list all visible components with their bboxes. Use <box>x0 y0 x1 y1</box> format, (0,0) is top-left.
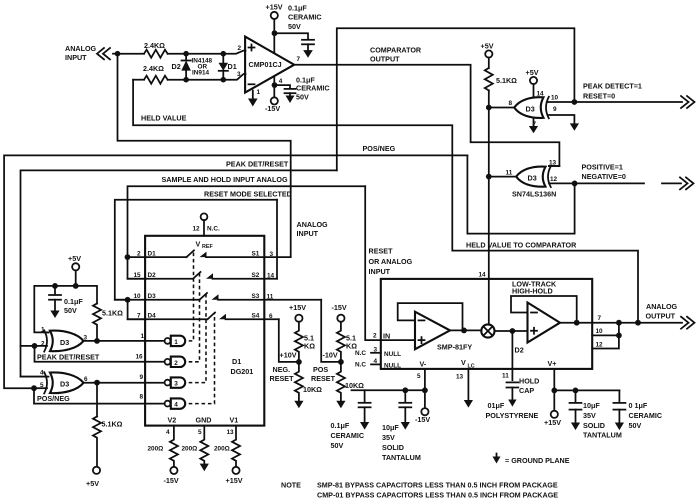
wire peak-det/reset command top route (line B up and over to gate input 10) <box>337 28 575 170</box>
svg-text:PEAK DET/RESET: PEAK DET/RESET <box>37 353 100 362</box>
svg-text:S4: S4 <box>252 313 260 320</box>
node ANALOG INPUT (label and off-page arrow) <box>65 44 118 62</box>
svg-text:+5V: +5V <box>481 42 494 51</box>
label PEAK DETECT=1 RESET=0 <box>583 82 642 101</box>
svg-text:CERAMIC: CERAMIC <box>331 431 365 440</box>
power +15V terminal (DG201 V1) <box>226 467 243 485</box>
svg-text:CERAMIC: CERAMIC <box>629 411 663 420</box>
node pin7/pin10 tie <box>616 320 622 326</box>
svg-text:2: 2 <box>373 333 377 340</box>
svg-text:NEGATIVE=0: NEGATIVE=0 <box>582 172 626 181</box>
wire peak det/reset to DG201 gate2 input (pin 16) <box>35 346 165 362</box>
power +5V terminal (left logic) <box>68 254 81 270</box>
svg-text:HOLD: HOLD <box>519 377 539 386</box>
svg-text:50V: 50V <box>629 421 642 430</box>
node input buffer output <box>461 328 467 334</box>
svg-text:14: 14 <box>267 273 275 280</box>
svg-text:10μF: 10μF <box>583 401 600 410</box>
svg-text:35V: 35V <box>382 433 395 442</box>
wire XOR2 pin4 input <box>21 376 48 378</box>
wire XOR-B pin13 input stub <box>549 165 559 167</box>
wire pin 10 tie <box>592 323 619 336</box>
wire R2 to diodes and pin3 <box>168 74 246 80</box>
pin 11 hold cap stem <box>502 373 509 380</box>
wire V+ pin to supply node <box>553 369 555 411</box>
svg-text:D2: D2 <box>515 346 524 355</box>
node pin10 <box>616 333 622 339</box>
svg-text:SMP-81 BYPASS CAPACITORS LESS: SMP-81 BYPASS CAPACITORS LESS THAN 0.5 I… <box>317 481 558 490</box>
power -15V terminal (SMP V-) <box>415 408 430 424</box>
svg-text:4: 4 <box>40 370 44 377</box>
node XOR-A output pin 8 <box>486 105 492 111</box>
svg-text:11: 11 <box>506 170 513 177</box>
node XOR-B output pin 11 <box>486 174 492 180</box>
svg-text:OUTPUT: OUTPUT <box>646 312 676 321</box>
node hold capacitor tap <box>510 328 516 334</box>
svg-text:-15V: -15V <box>164 476 179 485</box>
svg-text:9: 9 <box>553 106 557 113</box>
wire hold node to pin 11 <box>511 331 513 380</box>
svg-text:10KΩ: 10KΩ <box>345 381 364 390</box>
wire R1 to diodes and pin2 <box>168 51 246 54</box>
sampling switch (multiplier symbol) <box>481 324 494 337</box>
wire line D reset mode bus (left branch to D3/D4 rows) <box>115 200 277 300</box>
wire comparator pin4 stem <box>273 77 275 98</box>
xor gate D3 (XOR1 peak det/reset) <box>41 327 88 352</box>
wire XOR-A pin10 input line <box>547 101 574 103</box>
svg-text:SN74LS136N: SN74LS136N <box>512 190 556 199</box>
label 01uF POLYSTYRENE <box>486 401 539 420</box>
node XOR2 output pin6 <box>94 380 100 386</box>
svg-text:2.4KΩ: 2.4KΩ <box>143 64 164 73</box>
pin VLC label <box>456 358 475 381</box>
node +5V stem junction <box>73 283 79 289</box>
svg-text:2.4KΩ: 2.4KΩ <box>144 41 165 50</box>
pin 4 NULL stub <box>355 358 401 370</box>
svg-text:11: 11 <box>267 294 274 301</box>
svg-text:NOTE: NOTE <box>281 481 301 490</box>
node line C to D1 row <box>125 254 131 260</box>
xor gate D3 (XOR-A, 74LS136 gate: out 8, in 9/10) <box>509 91 559 129</box>
op-amp SMP input buffer <box>415 312 450 350</box>
svg-text:5: 5 <box>417 373 421 380</box>
svg-text:V2: V2 <box>168 416 177 425</box>
svg-text:2: 2 <box>174 360 178 367</box>
wire VLC pin to ground <box>467 369 469 400</box>
wire comparator output pin7 to XOR-B input 13 <box>294 65 559 166</box>
svg-text:-15V: -15V <box>332 303 347 312</box>
pin 12 N.C. terminal <box>193 213 221 235</box>
node XOR1 pin2 junction <box>32 343 38 349</box>
resistor 10K (NEG reset) <box>295 362 322 401</box>
wire comparator pin1 stem <box>252 91 254 99</box>
svg-text:+5V: +5V <box>526 68 539 77</box>
node XOR2 pin5 junction <box>31 385 37 391</box>
svg-text:4: 4 <box>166 429 170 436</box>
sample-hold SMP-81FY box <box>381 279 592 369</box>
ground plane arrow (V+ tantalum) <box>571 423 580 431</box>
DG201 switch 2 row (D2 15 / S2 14) <box>128 272 278 280</box>
wire to bypass cap <box>275 33 309 39</box>
control buffer gate 1 <box>141 333 186 346</box>
svg-text:OR ANALOG: OR ANALOG <box>369 257 413 266</box>
DG201 switch 1 row (D1 2 / S1 3) <box>128 250 291 258</box>
svg-text:D3: D3 <box>60 338 69 347</box>
svg-text:9: 9 <box>140 374 144 381</box>
op-amp SMP output buffer <box>528 303 561 343</box>
label VREF <box>196 240 214 251</box>
wire dashed control switch 3 <box>189 294 206 383</box>
capacitor 10uF tantalum (V+ rail) <box>570 390 622 439</box>
svg-text:12: 12 <box>193 226 201 233</box>
wire XOR1 output to DG201 gate1 input (pin 1) <box>84 340 165 342</box>
svg-text:3: 3 <box>237 71 241 78</box>
node XOR-A input10 / output line junction <box>572 99 578 105</box>
node +5V rail cap tap <box>52 283 58 289</box>
wire pin 12 tie <box>592 335 619 348</box>
wire XOR2 pin5 input <box>34 387 47 389</box>
ground plane arrow (V+ cap) <box>303 50 313 58</box>
resistor 5.1K pull-up (comparator output bus) <box>485 68 517 90</box>
svg-text:DG201: DG201 <box>231 367 254 376</box>
capacitor 0.1uF 50V (logic bypass) <box>49 286 83 315</box>
svg-text:0.1μF: 0.1μF <box>288 4 307 13</box>
pin V+ label <box>548 359 557 368</box>
svg-text:POS/NEG: POS/NEG <box>363 144 396 153</box>
svg-text:CMP-01 BYPASS CAPACITORS LESS: CMP-01 BYPASS CAPACITORS LESS THAN 0.5 I… <box>317 491 558 500</box>
svg-text:ANALOG: ANALOG <box>297 220 329 229</box>
label ANALOG OUTPUT <box>646 302 678 321</box>
svg-text:0 1μF: 0 1μF <box>629 401 648 410</box>
ground plane legend <box>493 454 570 466</box>
resistor 200ohm (V1) <box>214 426 240 467</box>
analog switch D1 DG201 box <box>145 236 264 426</box>
wire analog input routing to DG201 S1 <box>118 54 291 257</box>
svg-text:IN: IN <box>383 332 390 341</box>
svg-text:GND: GND <box>196 416 212 425</box>
svg-text:7: 7 <box>598 315 602 322</box>
svg-text:RESET: RESET <box>369 247 394 256</box>
node pin4 junction <box>272 82 278 88</box>
svg-text:1: 1 <box>174 339 178 346</box>
power +5V terminal (pull-up, top right) <box>481 42 494 58</box>
node V- bypass junction <box>422 387 428 393</box>
svg-text:NEG.: NEG. <box>273 365 291 374</box>
svg-text:+15V: +15V <box>289 303 306 312</box>
wire POSITIVE output with off-page arrow <box>575 177 694 189</box>
label COMPARATOR OUTPUT <box>370 46 422 64</box>
svg-text:CAP: CAP <box>519 386 534 395</box>
svg-text:+15V: +15V <box>226 476 243 485</box>
svg-text:8: 8 <box>140 394 144 401</box>
svg-text:TANTALUM: TANTALUM <box>583 431 622 440</box>
wire XOR-A pin7 ground stem <box>533 118 535 126</box>
power +15V terminal (NEG reset) <box>289 303 306 322</box>
wire buffer output to sampling switch <box>450 329 482 331</box>
svg-text:2: 2 <box>238 45 242 52</box>
svg-text:7: 7 <box>297 56 301 63</box>
ground (XOR-A pin 9) <box>570 123 579 130</box>
wire pin14 control to sampling switch <box>488 279 490 325</box>
svg-text:CERAMIC: CERAMIC <box>288 13 322 22</box>
ground (XOR-A pin 7) <box>529 126 538 133</box>
svg-text:IN914: IN914 <box>192 70 209 77</box>
svg-text:50V: 50V <box>296 93 309 102</box>
wire XOR2 pull-up drop <box>96 383 98 417</box>
svg-text:12: 12 <box>550 176 558 183</box>
wire switch to hold node <box>495 330 528 332</box>
svg-text:RESET: RESET <box>270 374 295 383</box>
wire S3 to POS reset node <box>321 300 341 362</box>
wire line C sample/hold analog input bus <box>128 186 366 278</box>
diode D2 (pointing up) <box>172 54 191 80</box>
svg-text:0.1μF: 0.1μF <box>64 297 83 306</box>
pin 2 IN labels <box>373 332 390 341</box>
svg-text:35V: 35V <box>583 411 596 420</box>
resistor R 2.4k upper <box>144 41 168 58</box>
xor gate D3 (XOR-B, 74LS136 gate: out 11, in 12/13) <box>506 160 558 188</box>
svg-text:KΩ: KΩ <box>304 342 315 351</box>
wire S4 to NEG reset node <box>279 319 299 362</box>
svg-text:POLYSTYRENE: POLYSTYRENE <box>486 411 539 420</box>
resistor 5.1K (POS reset) <box>337 322 357 362</box>
svg-text:3: 3 <box>174 381 178 388</box>
capacitor 0.1uF ceramic 50V (V+) <box>288 4 322 51</box>
svg-text:NULL: NULL <box>384 351 401 358</box>
svg-text:50V: 50V <box>288 22 301 31</box>
control buffer gate 3 <box>140 374 186 388</box>
svg-text:CERAMIC: CERAMIC <box>296 84 330 93</box>
DG201 bottom pin labels V2 GND V1 <box>166 416 238 437</box>
wire XOR-B pin12 input line <box>549 182 575 184</box>
svg-text:PEAK DETECT=1: PEAK DETECT=1 <box>583 82 642 91</box>
svg-text:INPUT: INPUT <box>297 229 319 238</box>
svg-text:V1: V1 <box>230 416 239 425</box>
svg-text:5.1KΩ: 5.1KΩ <box>496 76 517 85</box>
svg-text:200Ω: 200Ω <box>214 446 230 453</box>
DG201 switch 3 row (D3 10 / S3 11) <box>115 293 321 301</box>
resistor 200ohm (V2) <box>148 426 178 467</box>
svg-text:16: 16 <box>136 354 144 361</box>
wire V+ bypass rail <box>554 389 619 391</box>
svg-text:13: 13 <box>456 374 464 381</box>
svg-text:ANALOG: ANALOG <box>646 302 678 311</box>
svg-text:+10V: +10V <box>280 351 297 360</box>
node V- tantalum tap <box>402 387 408 393</box>
svg-text:200Ω: 200Ω <box>182 446 198 453</box>
svg-text:ANALOG: ANALOG <box>65 44 97 53</box>
svg-text:INPUT: INPUT <box>65 53 87 62</box>
label ANALOG INPUT (DG201 S1) <box>297 220 329 238</box>
svg-text:13: 13 <box>227 429 235 436</box>
resistor R 2.4k lower <box>143 64 168 84</box>
ground pin1 <box>248 99 258 107</box>
node D2 bottom <box>183 77 189 83</box>
label RESET OR ANALOG INPUT <box>369 247 413 277</box>
svg-text:D3: D3 <box>528 174 537 183</box>
wire ANALOG OUTPUT with off-page arrow <box>638 317 695 329</box>
svg-text:RESET: RESET <box>311 374 336 383</box>
resistor 5.1K pull-up (XOR2 output) <box>93 417 123 467</box>
capacitor 0.1uF ceramic 50V (V+ rail) <box>613 390 662 430</box>
wire pull-up bus down to SMP pin 14 <box>488 90 490 279</box>
power -15V terminal (POS reset) <box>332 303 347 322</box>
svg-text:12: 12 <box>596 342 604 349</box>
wire dashed control switch 4 <box>189 314 215 404</box>
wire +5V to pull-up resistor <box>488 58 490 68</box>
svg-text:4: 4 <box>279 78 283 85</box>
svg-text:HELD VALUE: HELD VALUE <box>141 114 187 123</box>
ground plane arrow (VLC) <box>464 400 473 408</box>
svg-text:SMP-81FY: SMP-81FY <box>437 343 472 352</box>
svg-text:-15V: -15V <box>415 415 430 424</box>
node +15V bypass junction <box>272 30 278 36</box>
svg-text:REF: REF <box>202 244 213 250</box>
capacitor 0.1uF ceramic 50V (V- rail) <box>331 390 371 450</box>
power +15V terminal (SMP V+) <box>544 411 561 427</box>
svg-text:14: 14 <box>479 272 487 279</box>
wire output to pin 7 <box>560 322 638 324</box>
wire output buffer feedback loop <box>511 296 577 323</box>
ground plane arrow (V- cap) <box>286 96 295 104</box>
wire pos/neg to DG201 gate4 input (pin 8) <box>34 388 165 403</box>
svg-text:= GROUND PLANE: = GROUND PLANE <box>505 456 570 465</box>
svg-text:CMP01CJ: CMP01CJ <box>249 60 282 69</box>
svg-text:D1: D1 <box>228 62 237 71</box>
node V+ tantalum tap <box>573 388 579 394</box>
svg-text:D3: D3 <box>526 105 535 114</box>
wire +5V rail <box>34 270 97 332</box>
node analog output junction <box>635 320 641 326</box>
label IN4148 OR IN914 <box>192 58 213 77</box>
wire dashed control switch 2 <box>189 273 200 362</box>
svg-text:HIGH-HOLD: HIGH-HOLD <box>512 287 553 296</box>
ground plane arrow (DG201 GND) <box>200 464 209 472</box>
ground plane arrow (NEG reset) <box>294 401 303 409</box>
node XOR-B input12 / POSITIVE output junction <box>572 181 578 187</box>
control buffer gate 2 <box>136 354 186 368</box>
svg-text:50V: 50V <box>331 441 344 450</box>
wire line D right branch down to DG201 S2 <box>276 200 278 279</box>
svg-text:V: V <box>461 358 466 367</box>
node D2 top <box>183 51 189 57</box>
capacitor hold cap <box>507 377 540 400</box>
control buffer gate 4 <box>140 394 186 409</box>
svg-text:PEAK DET/RESET: PEAK DET/RESET <box>226 160 289 169</box>
svg-text:OUTPUT: OUTPUT <box>370 55 400 64</box>
power +5V terminal (XOR-A pin 14) <box>526 68 539 84</box>
wire line C drop to SMP input pin 2 <box>365 186 415 340</box>
svg-text:N.C: N.C <box>355 362 366 369</box>
svg-text:SOLID: SOLID <box>583 421 605 430</box>
svg-text:S1: S1 <box>252 251 260 258</box>
svg-text:14: 14 <box>537 91 545 98</box>
svg-text:5: 5 <box>198 429 202 436</box>
svg-text:4: 4 <box>174 402 178 409</box>
power +15V terminal (comparator) <box>266 3 283 20</box>
wire pin4 to bypass cap <box>275 85 291 88</box>
wire PEAK DETECT output with off-page arrow <box>574 96 694 108</box>
wire pos/neg line A routing to XOR-B pin12 node <box>467 155 574 233</box>
wire XOR1 pin2 input <box>21 345 48 347</box>
wire XOR1 pin1 input <box>45 331 49 333</box>
svg-text:10: 10 <box>551 95 559 102</box>
label LOW-TRACK HIGH-HOLD <box>512 280 557 296</box>
wire pin14 stem <box>533 84 535 97</box>
wire line A POS/NEG bus <box>4 155 467 388</box>
power +5V terminal (bottom) <box>86 467 100 488</box>
wire XOR-A pin9 to ground <box>548 115 574 123</box>
node XOR1 output pin3 <box>94 338 100 344</box>
svg-text:-10V: -10V <box>323 351 338 360</box>
ground plane arrow (V- ceramic) <box>360 422 369 430</box>
svg-text:200Ω: 200Ω <box>148 446 164 453</box>
pin 3 NULL stub <box>355 347 401 359</box>
svg-text:+15V: +15V <box>544 418 561 427</box>
svg-text:D2: D2 <box>172 62 181 71</box>
svg-text:+5V: +5V <box>68 254 81 263</box>
node line D to D3 row <box>125 297 131 303</box>
wire held-value rail to R2 <box>133 79 144 81</box>
xor gate D3 (XOR2 pos/neg) <box>40 370 88 394</box>
op-amp comparator CMP01CJ <box>237 37 301 96</box>
wire XOR-A output pin8 <box>489 107 514 109</box>
svg-text:6: 6 <box>269 313 273 320</box>
svg-text:3: 3 <box>270 251 274 258</box>
svg-text:01μF: 01μF <box>488 401 505 410</box>
svg-text:8: 8 <box>509 100 513 107</box>
resistor 10K (POS reset) <box>337 362 364 401</box>
svg-text:TANTALUM: TANTALUM <box>382 453 421 462</box>
wire +15V to comparator top <box>273 19 275 53</box>
svg-text:COMPARATOR: COMPARATOR <box>370 46 422 55</box>
resistor 5.1K (NEG reset) <box>295 322 315 362</box>
svg-text:POS/NEG: POS/NEG <box>37 394 70 403</box>
node NEG reset <box>296 359 302 365</box>
svg-text:POSITIVE=1: POSITIVE=1 <box>582 163 623 172</box>
node D1 top <box>221 51 227 57</box>
wire D3-row node down to D4 row <box>128 300 146 320</box>
node output buffer feedback junction <box>574 320 580 326</box>
wire line B PEAK DET/RESET bus <box>21 170 337 376</box>
wire V- pin to supply node <box>424 369 426 411</box>
svg-text:HELD VALUE TO COMPARATOR: HELD VALUE TO COMPARATOR <box>466 241 577 250</box>
svg-text:D3: D3 <box>60 380 69 389</box>
wire analog input top rail to R1 <box>118 53 145 55</box>
svg-text:RESET=0: RESET=0 <box>583 92 615 101</box>
svg-text:V: V <box>196 240 201 249</box>
ground plane arrow (POS reset) <box>336 401 345 409</box>
wire input buffer feedback loop <box>398 303 463 330</box>
svg-text:INPUT: INPUT <box>369 267 391 276</box>
svg-text:10: 10 <box>596 328 604 335</box>
power -15V terminal (comparator) <box>265 97 280 113</box>
label POSITIVE=1 NEGATIVE=0 <box>582 163 626 182</box>
note text <box>281 481 558 500</box>
label NEG. RESET <box>270 365 295 383</box>
svg-text:11: 11 <box>502 373 509 380</box>
diode D1 (pointing down) <box>219 54 237 80</box>
svg-text:S2: S2 <box>252 272 260 279</box>
wire V- bypass rail <box>352 389 425 391</box>
wire XOR2 output to DG201 gate3 input (pin 9) <box>84 382 165 384</box>
wire XOR-B output pin11 <box>489 176 516 178</box>
svg-text:RESET MODE SELECTED: RESET MODE SELECTED <box>204 190 292 199</box>
svg-text:POS: POS <box>313 365 328 374</box>
resistor 5.1K pull-up (XOR1 output) <box>93 304 123 339</box>
svg-text:SAMPLE AND HOLD INPUT ANALOG: SAMPLE AND HOLD INPUT ANALOG <box>162 175 288 184</box>
label POS RESET <box>311 365 336 383</box>
